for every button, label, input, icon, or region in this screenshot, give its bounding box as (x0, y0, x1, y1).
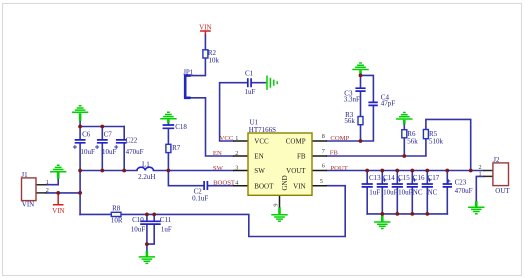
svg-text:C6: C6 (82, 131, 91, 139)
svg-text:VIN: VIN (22, 201, 34, 209)
svg-text:C15: C15 (398, 174, 410, 182)
svg-text:VIN: VIN (199, 24, 211, 32)
svg-text:C22: C22 (126, 136, 138, 144)
svg-text:C18: C18 (175, 123, 187, 131)
svg-text:10k: 10k (209, 57, 220, 65)
svg-text:C13: C13 (369, 174, 381, 182)
svg-text:1uF: 1uF (369, 188, 380, 196)
svg-text:C16: C16 (413, 174, 425, 182)
svg-text:VIN: VIN (52, 207, 64, 215)
svg-text:0.1uF: 0.1uF (192, 195, 208, 203)
svg-text:J2: J2 (493, 156, 500, 164)
svg-text:3: 3 (235, 165, 238, 172)
svg-text:VOUT: VOUT (286, 167, 306, 175)
svg-text:L1: L1 (142, 161, 150, 169)
svg-text:10R: 10R (111, 217, 123, 225)
svg-text:R8: R8 (112, 205, 121, 213)
svg-text:NC: NC (428, 188, 438, 196)
svg-text:C17: C17 (428, 174, 440, 182)
svg-text:VCC: VCC (254, 138, 269, 146)
svg-text:9: 9 (273, 204, 280, 207)
svg-text:R5: R5 (429, 130, 438, 138)
svg-text:510k: 510k (429, 138, 444, 146)
svg-text:3.3nF: 3.3nF (344, 96, 360, 104)
svg-text:7: 7 (322, 148, 325, 155)
svg-text:FB: FB (297, 153, 306, 161)
svg-text:VIN: VIN (293, 182, 305, 190)
svg-text:R6: R6 (407, 130, 416, 138)
svg-text:EN: EN (213, 150, 222, 157)
svg-text:COMP: COMP (286, 138, 306, 146)
svg-text:J1: J1 (21, 171, 28, 179)
svg-text:10uF: 10uF (81, 148, 96, 156)
svg-text:C1: C1 (245, 70, 254, 78)
svg-text:10uF: 10uF (102, 148, 117, 156)
svg-text:BOOST: BOOST (213, 180, 235, 187)
svg-text:OUT: OUT (495, 187, 510, 195)
svg-text:1: 1 (235, 135, 238, 142)
svg-text:47pF: 47pF (381, 100, 396, 108)
svg-text:470uF: 470uF (455, 187, 473, 195)
svg-text:SW: SW (254, 167, 265, 175)
svg-text:8: 8 (322, 133, 325, 140)
svg-text:BOOT: BOOT (254, 182, 274, 190)
svg-text:VCC: VCC (220, 135, 234, 142)
svg-text:56k: 56k (407, 138, 418, 146)
svg-text:JP1: JP1 (183, 68, 194, 76)
svg-text:2: 2 (235, 150, 238, 157)
svg-text:2.2uH: 2.2uH (138, 173, 155, 181)
svg-text:10uF: 10uF (383, 188, 398, 196)
svg-text:GND: GND (281, 175, 289, 190)
svg-text:56k: 56k (344, 117, 355, 125)
svg-text:EN: EN (254, 153, 263, 161)
svg-text:COMP: COMP (330, 135, 349, 142)
svg-text:C23: C23 (455, 178, 467, 186)
svg-text:10uF: 10uF (131, 225, 146, 233)
svg-text:1: 1 (46, 179, 49, 186)
svg-text:470uF: 470uF (126, 148, 144, 156)
svg-text:C7: C7 (104, 131, 113, 139)
svg-text:5: 5 (320, 178, 323, 185)
svg-text:R7: R7 (172, 144, 181, 152)
svg-text:SW: SW (213, 165, 224, 172)
svg-text:NC: NC (413, 188, 423, 196)
svg-text:2: 2 (46, 187, 49, 194)
svg-text:4: 4 (235, 180, 238, 187)
svg-text:HT7166S: HT7166S (249, 126, 276, 134)
svg-text:C14: C14 (383, 174, 395, 182)
svg-text:C10: C10 (132, 216, 144, 224)
svg-text:FB: FB (330, 150, 339, 157)
svg-text:6: 6 (322, 163, 325, 170)
svg-text:C11: C11 (160, 216, 172, 224)
svg-text:POUT: POUT (330, 165, 347, 172)
svg-text:1uF: 1uF (161, 225, 172, 233)
svg-text:1: 1 (479, 171, 482, 178)
svg-text:10uF: 10uF (398, 188, 413, 196)
svg-text:1uF: 1uF (245, 88, 256, 96)
